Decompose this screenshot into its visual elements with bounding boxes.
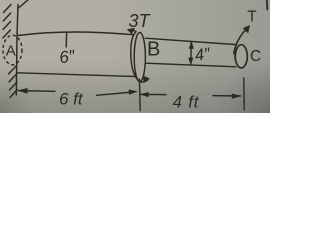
svg-text:B: B bbox=[147, 39, 160, 61]
svg-text:3T: 3T bbox=[129, 11, 152, 31]
svg-text:A: A bbox=[6, 43, 16, 60]
svg-text:T: T bbox=[247, 9, 257, 26]
svg-text:6 ft: 6 ft bbox=[59, 90, 84, 109]
svg-text:4 ft: 4 ft bbox=[173, 93, 200, 112]
svg-text:C: C bbox=[250, 48, 261, 65]
